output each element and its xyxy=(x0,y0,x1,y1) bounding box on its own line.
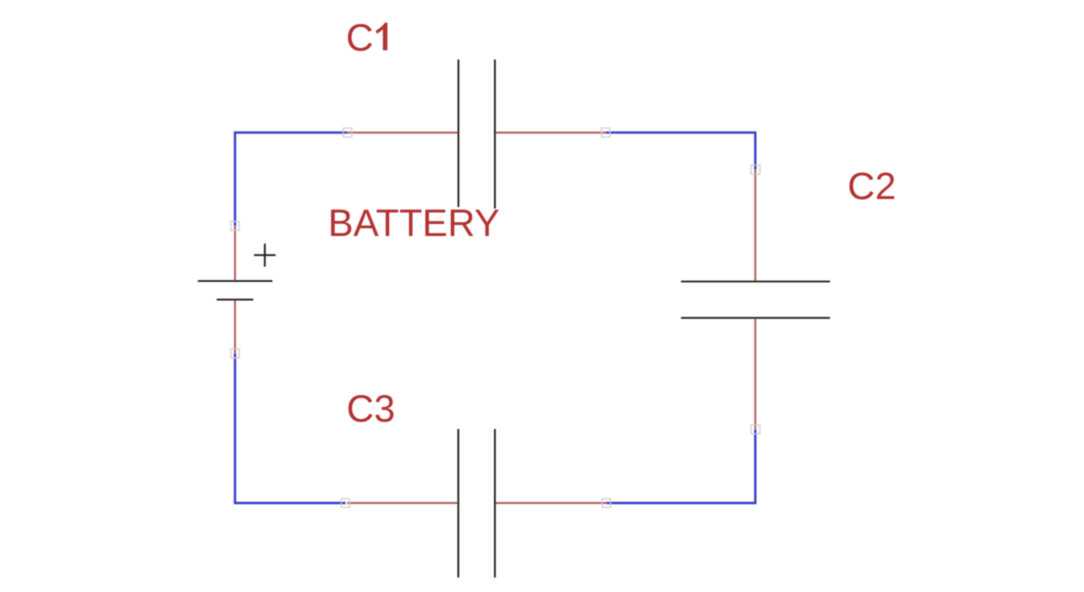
svg-text:BATTERY: BATTERY xyxy=(328,203,500,245)
svg-text:C3: C3 xyxy=(347,389,396,431)
svg-text:C2: C2 xyxy=(848,166,897,208)
svg-text:C: C xyxy=(346,18,373,60)
